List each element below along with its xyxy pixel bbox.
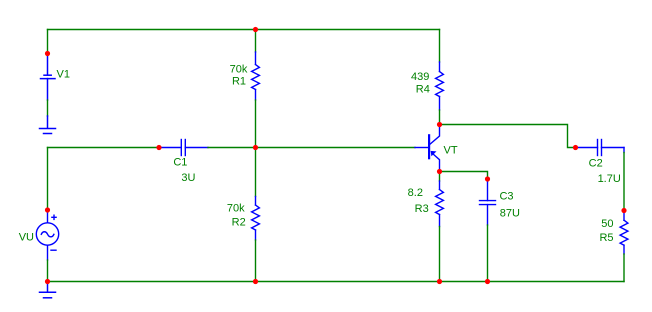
wire middle rail to transistor base xyxy=(256,147,416,149)
svg-text:439: 439 xyxy=(411,71,429,83)
svg-text:70k: 70k xyxy=(230,64,248,76)
wire R2 to bottom rail xyxy=(255,240,257,282)
svg-text:C2: C2 xyxy=(589,158,603,170)
wire R5 to bottom rail xyxy=(623,254,625,282)
resistor R2 xyxy=(252,197,260,241)
ground under VU xyxy=(40,282,56,298)
resistor R3 xyxy=(436,181,444,227)
transistor VT xyxy=(415,125,440,172)
wire collector to C2 xyxy=(440,125,576,148)
svg-text:50: 50 xyxy=(601,218,613,230)
node emitter junction xyxy=(437,169,442,174)
node VU top pin dot xyxy=(45,207,50,212)
wire V1 to ground xyxy=(47,100,49,116)
wire R4 to collector node xyxy=(439,110,441,125)
svg-text:VT: VT xyxy=(444,144,458,156)
node bottom rail R3 junction xyxy=(437,279,442,284)
svg-text:C1: C1 xyxy=(173,157,187,169)
node C1 left pin dot xyxy=(156,145,161,150)
svg-text:C3: C3 xyxy=(499,190,513,202)
wire left vertical from top rail to V1 xyxy=(47,30,49,54)
svg-text:8.2: 8.2 xyxy=(408,187,423,199)
wire middle rail left vertical xyxy=(47,148,49,211)
svg-text:R1: R1 xyxy=(232,76,246,88)
node top rail / R1 junction xyxy=(253,27,258,32)
wire emitter to R3 xyxy=(439,172,441,182)
wire top rail xyxy=(48,29,440,31)
wire C2 to R5 xyxy=(623,153,625,211)
wire emitter to C3 branch xyxy=(440,172,488,180)
source VU xyxy=(36,210,58,260)
node collector junction xyxy=(437,122,442,127)
wire C1 to base junction xyxy=(208,147,256,149)
wire R1 to middle rail xyxy=(255,100,257,148)
wire VU to bottom rail xyxy=(47,260,49,282)
capacitor C2 xyxy=(576,140,625,156)
svg-text:R5: R5 xyxy=(599,232,613,244)
wire R2 top xyxy=(255,148,257,197)
wire R3 to bottom rail xyxy=(439,227,441,282)
wire top rail right vertical to R4 xyxy=(439,30,441,63)
svg-text:VU: VU xyxy=(19,231,34,243)
capacitor C3 xyxy=(480,179,496,225)
svg-text:R3: R3 xyxy=(415,203,429,215)
svg-text:3U: 3U xyxy=(181,172,195,184)
svg-text:R4: R4 xyxy=(416,83,430,95)
wire middle rail left segment xyxy=(48,147,160,149)
svg-text:87U: 87U xyxy=(500,208,520,220)
capacitor C1 xyxy=(159,140,208,156)
node middle rail R2 junction xyxy=(253,145,258,150)
wire top rail to R1 xyxy=(255,30,257,53)
node bottom rail C3 junction xyxy=(485,279,490,284)
svg-text:R2: R2 xyxy=(232,217,246,229)
wire C3 to bottom rail xyxy=(487,225,489,282)
node C2 left pin dot xyxy=(573,145,578,150)
resistor R5 xyxy=(620,211,628,255)
battery V1 xyxy=(41,54,56,101)
wire bottom rail xyxy=(48,281,625,283)
ground under V1 xyxy=(40,116,56,134)
svg-text:1.7U: 1.7U xyxy=(598,173,621,185)
resistor R4 xyxy=(436,62,444,110)
svg-text:70k: 70k xyxy=(227,202,245,214)
node bottom rail left junction xyxy=(45,279,50,284)
node C3 top pin dot xyxy=(485,176,490,181)
resistor R1 xyxy=(252,52,260,100)
node V1 top pin dot xyxy=(45,51,50,56)
node bottom rail R2 junction xyxy=(253,279,258,284)
svg-text:V1: V1 xyxy=(57,69,70,81)
node R5 top pin dot xyxy=(621,208,626,213)
